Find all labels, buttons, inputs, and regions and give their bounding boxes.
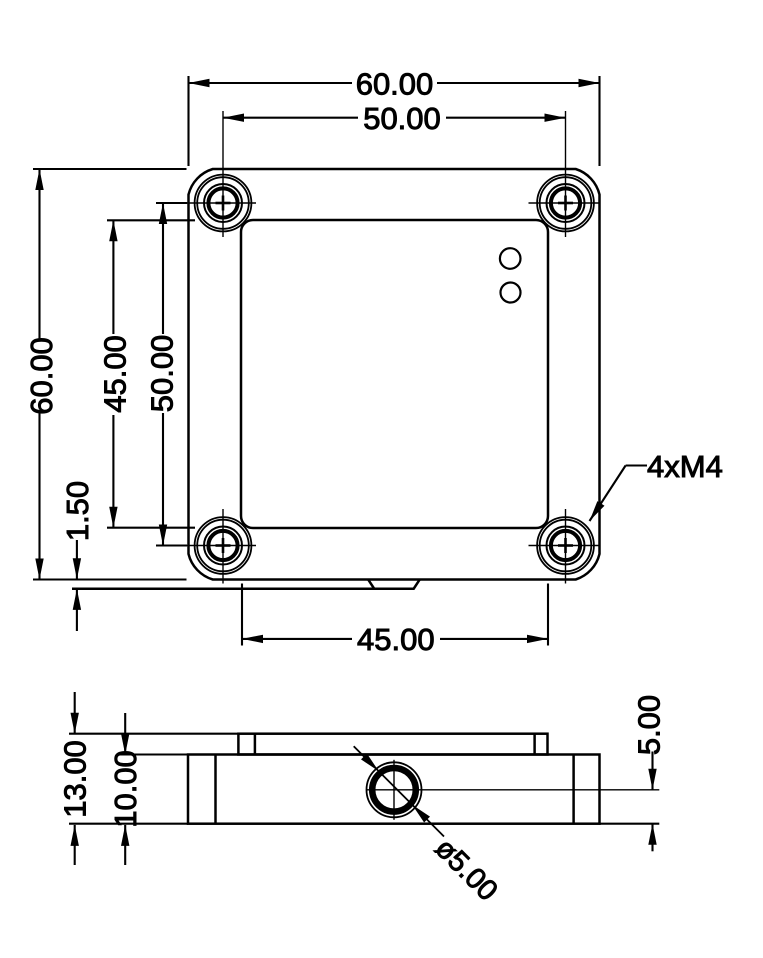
svg-text:1.50: 1.50 (60, 481, 95, 541)
svg-text:45.00: 45.00 (357, 622, 435, 657)
svg-text:60.00: 60.00 (356, 66, 434, 101)
svg-text:5.00: 5.00 (631, 695, 666, 755)
svg-text:50.00: 50.00 (144, 335, 179, 413)
svg-text:60.00: 60.00 (24, 337, 59, 415)
svg-text:4xM4: 4xM4 (647, 449, 723, 484)
svg-text:50.00: 50.00 (363, 101, 441, 136)
svg-text:10.00: 10.00 (108, 750, 143, 828)
svg-text:13.00: 13.00 (58, 740, 93, 818)
svg-text:45.00: 45.00 (97, 335, 132, 413)
